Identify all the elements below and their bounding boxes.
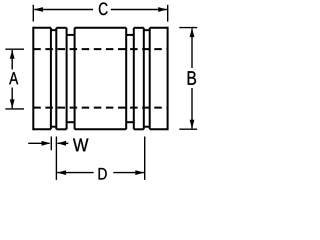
- left seal groove bottom floor: [67, 121, 75, 123]
- left retaining ring groove wall 1: [50, 28, 52, 130]
- dim C line left tail: [34, 9, 93, 11]
- bottom edge segment 3 (center): [75, 128, 127, 130]
- dim A line lower segment: [11, 88, 13, 109]
- hidden bore line top (dashed): [33, 48, 167, 50]
- body right edge: [167, 27, 169, 131]
- right seal groove wall 2: [133, 28, 135, 130]
- left seal groove top floor: [67, 34, 75, 36]
- dim C right extension line: [167, 5, 169, 22]
- dim W left arrow tail: [28, 142, 49, 144]
- dim B bottom arrowhead: [190, 120, 195, 129]
- hidden bore line bottom (dashed): [33, 107, 167, 109]
- dim W right / D left shared extension line: [55, 137, 57, 180]
- right retaining ring groove wall 2: [149, 28, 151, 130]
- dim A bottom extension line: [5, 108, 24, 110]
- label W: [73, 139, 88, 152]
- bottom edge segment 5: [150, 128, 168, 130]
- dim B line lower segment: [191, 88, 193, 128]
- top edge segment 4: [134, 27, 144, 29]
- dim A top extension line: [5, 48, 24, 50]
- dim C left arrowhead: [34, 7, 43, 12]
- dim B bottom extension line: [179, 128, 197, 130]
- left ring groove top floor: [51, 29, 56, 31]
- dim W left arrowhead: [42, 141, 51, 146]
- left ring groove bottom floor: [51, 126, 56, 128]
- dim B line upper segment: [191, 28, 193, 68]
- dim A top arrowhead: [10, 50, 15, 59]
- dim D right arrow tail: [113, 172, 144, 174]
- dim B top extension line: [179, 27, 197, 29]
- label D: [99, 168, 107, 180]
- left retaining ring groove wall 2: [55, 28, 57, 130]
- label C: [99, 3, 108, 16]
- body left edge: [32, 27, 34, 131]
- bottom edge segment 2: [56, 128, 66, 130]
- dim D right arrowhead: [135, 170, 144, 175]
- right seal groove wall 1: [125, 28, 127, 130]
- dim A line upper segment: [11, 50, 13, 70]
- dim D left arrow tail: [57, 172, 93, 174]
- dim C line right tail: [111, 9, 167, 11]
- left seal groove wall 1: [66, 28, 68, 130]
- left seal groove wall 2: [74, 28, 76, 130]
- right ring groove top floor: [144, 29, 150, 31]
- right seal groove top floor: [126, 34, 134, 36]
- right retaining ring groove wall 1: [143, 28, 145, 130]
- label A: [9, 72, 18, 84]
- dim C right arrowhead: [158, 7, 167, 12]
- bottom edge segment 1: [33, 128, 51, 130]
- dim D left arrowhead: [57, 170, 66, 175]
- top edge segment 2: [56, 27, 66, 29]
- dim D right extension line: [144, 137, 146, 180]
- dim A bottom arrowhead: [10, 99, 15, 108]
- right seal groove bottom floor: [126, 121, 134, 123]
- top edge segment 5: [150, 27, 168, 29]
- bottom edge segment 4: [134, 128, 144, 130]
- dim W right arrowhead: [57, 141, 66, 146]
- top edge segment 3 (center): [75, 27, 127, 29]
- top edge segment 1: [33, 27, 51, 29]
- dim W right arrow tail: [58, 142, 69, 144]
- label B: [188, 71, 196, 85]
- right ring groove bottom floor: [144, 126, 150, 128]
- dim W left extension line: [50, 137, 52, 151]
- dim C left extension line: [32, 5, 34, 22]
- dim B top arrowhead: [190, 28, 195, 37]
